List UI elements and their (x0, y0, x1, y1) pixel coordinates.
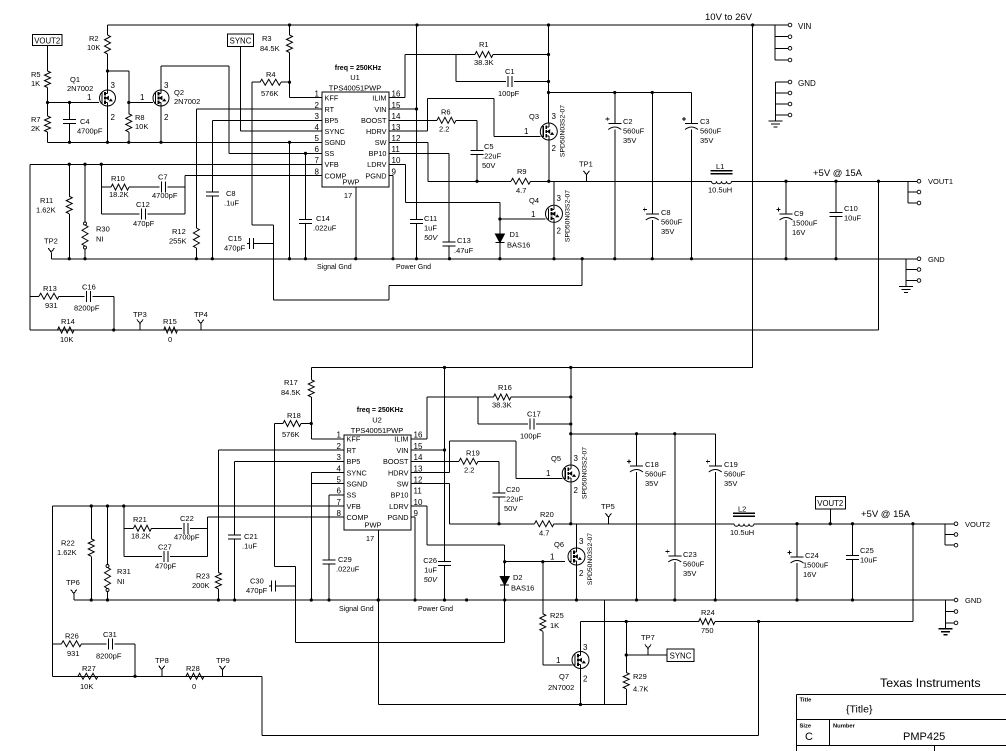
svg-text:COMP: COMP (347, 513, 369, 522)
svg-text:R8: R8 (135, 113, 145, 122)
resistor R23 200K (215, 573, 221, 589)
svg-text:Q6: Q6 (554, 540, 564, 549)
svg-text:2: 2 (111, 113, 116, 122)
svg-text:.1uF: .1uF (224, 199, 239, 208)
svg-text:35V: 35V (623, 136, 636, 145)
inductor L2 10.5uH (734, 524, 754, 527)
svg-text:TP8: TP8 (155, 656, 169, 665)
svg-text:1: 1 (546, 469, 551, 478)
test point TP2 (50, 252, 52, 259)
svg-text:1: 1 (524, 127, 529, 136)
svg-text:VOUT1: VOUT1 (928, 177, 953, 186)
svg-text:VFB: VFB (347, 502, 361, 511)
svg-text:LDRV: LDRV (367, 160, 386, 169)
capacitor C14 .022uF (299, 219, 312, 221)
wire Q7 source down (580, 669, 582, 705)
svg-text:R15: R15 (163, 317, 177, 326)
svg-text:R4: R4 (266, 70, 276, 79)
capacitor C18 560uF 35V (636, 434, 638, 466)
svg-text:14: 14 (414, 453, 423, 462)
wire LDRV2 routing (411, 505, 427, 507)
resistor R20 4.7 (535, 521, 555, 527)
svg-text:3: 3 (552, 112, 557, 121)
connector VOUT1 (907, 181, 909, 203)
wire lower ground rail (74, 599, 946, 601)
svg-text:R11: R11 (40, 196, 53, 205)
transistor Q5 SPD50N03S2-07 (562, 465, 579, 482)
capacitor C7 4700pF (129, 186, 160, 188)
svg-text:1: 1 (531, 210, 536, 219)
svg-text:C19: C19 (724, 460, 738, 469)
wire VOUT2 stem (47, 46, 49, 72)
svg-text:PGND: PGND (387, 513, 408, 522)
svg-text:84.5K: 84.5K (260, 44, 280, 53)
svg-text:C8: C8 (661, 208, 671, 217)
svg-text:+5V @ 15A: +5V @ 15A (861, 509, 911, 520)
svg-text:C8: C8 (226, 189, 236, 198)
svg-text:3: 3 (111, 81, 116, 90)
wire input cap bank top (549, 92, 692, 94)
svg-text:35V: 35V (683, 569, 696, 578)
transistor Q6 SPD50N03S2-07 (568, 548, 585, 565)
svg-text:Signal Gnd: Signal Gnd (339, 606, 374, 613)
svg-text:16: 16 (414, 431, 423, 440)
resistor R9 4.7 (511, 178, 531, 184)
wire VOUT2 sense line (53, 675, 263, 677)
capacitor C21 .1uF (228, 534, 241, 536)
svg-text:576K: 576K (282, 430, 300, 439)
svg-text:VIN: VIN (374, 105, 386, 114)
svg-text:35V: 35V (724, 479, 737, 488)
svg-text:10uF: 10uF (860, 556, 878, 565)
svg-text:2: 2 (337, 442, 342, 451)
svg-text:470pF: 470pF (155, 562, 177, 571)
svg-text:ILIM: ILIM (394, 435, 408, 444)
wire VIN2 pin15 (411, 449, 445, 451)
svg-text:1uF: 1uF (424, 224, 437, 233)
svg-text:1500uF: 1500uF (792, 219, 818, 228)
svg-text:SPD50N03S2-07: SPD50N03S2-07 (587, 533, 594, 585)
svg-text:C5: C5 (484, 142, 494, 151)
svg-text:D2: D2 (513, 573, 523, 582)
svg-text:10K: 10K (87, 43, 100, 52)
svg-text:SYNC: SYNC (670, 651, 692, 660)
wire SYNC2 pin4 to SGND2 (311, 472, 344, 474)
svg-text:R27: R27 (82, 664, 96, 673)
svg-text:PGND: PGND (365, 172, 386, 181)
svg-text:C18: C18 (645, 460, 659, 469)
svg-text:COMP: COMP (325, 172, 347, 181)
svg-text:200K: 200K (192, 581, 210, 590)
wire ILIM2 pin16 up (411, 438, 427, 440)
svg-text:U2: U2 (372, 416, 382, 425)
svg-text:C12: C12 (136, 200, 150, 209)
wire Q1 gate line (48, 102, 100, 104)
ground (output2 connector) (945, 623, 947, 629)
resistor R21 18.2K (124, 527, 134, 529)
wire Q4 gate line (500, 218, 546, 220)
connector J VIN pins (774, 25, 776, 60)
svg-text:Power Gnd: Power Gnd (396, 264, 431, 271)
svg-text:100pF: 100pF (520, 432, 542, 441)
svg-text:560uF: 560uF (645, 470, 667, 479)
wire VOUT1 sense drop (878, 181, 880, 330)
svg-text:TP4: TP4 (194, 310, 208, 319)
capacitor C10 10uF (835, 181, 837, 212)
resistor R25 1K (542, 562, 544, 614)
svg-text:BP5: BP5 (347, 457, 361, 466)
node VIN column junctions (547, 53, 550, 56)
wire VOUT2 sense drop (912, 524, 914, 622)
svg-text:VFB: VFB (325, 160, 339, 169)
svg-text:Number: Number (833, 724, 856, 730)
svg-text:11: 11 (414, 487, 423, 496)
svg-text:4700pF: 4700pF (174, 533, 200, 542)
svg-text:freq = 250KHz: freq = 250KHz (335, 65, 382, 72)
test point TP6 (73, 594, 75, 601)
svg-text:2.2: 2.2 (439, 125, 449, 134)
node R3/R4 junction (288, 81, 291, 84)
svg-text:R19: R19 (466, 449, 480, 458)
ground (output1 connector) (905, 281, 907, 287)
svg-text:R1: R1 (479, 40, 489, 49)
svg-text:C14: C14 (316, 214, 330, 223)
svg-text:BP10: BP10 (391, 491, 409, 500)
svg-text:576K: 576K (261, 89, 279, 98)
wire U2 pin17 PWP to gnd rail and Q7 source (377, 530, 379, 705)
svg-text:35V: 35V (661, 227, 674, 236)
wire SYNC line (626, 654, 667, 656)
svg-text:NI: NI (117, 577, 125, 586)
svg-text:R10: R10 (111, 174, 125, 183)
transistor Q7 2N7002 (572, 652, 589, 669)
wire Q6 drain/source (576, 524, 578, 548)
svg-text:VOUT2: VOUT2 (965, 520, 990, 529)
svg-text:560uF: 560uF (661, 218, 683, 227)
svg-text:560uF: 560uF (623, 127, 645, 136)
wire +5V rail 2 to VOUT2 (754, 523, 945, 525)
wire Q2 source down (160, 106, 162, 142)
svg-text:C29: C29 (338, 555, 352, 564)
svg-text:931: 931 (67, 649, 80, 658)
svg-text:560uF: 560uF (683, 560, 705, 569)
diode D1 BAS16 (499, 219, 501, 234)
svg-text:38.3K: 38.3K (492, 401, 512, 410)
svg-text:6: 6 (315, 145, 320, 154)
wire SS down with C14 (305, 153, 307, 219)
svg-text:KFF: KFF (325, 93, 339, 102)
svg-text:1.62K: 1.62K (57, 548, 77, 557)
svg-text:R13: R13 (43, 284, 57, 293)
svg-text:2: 2 (574, 486, 579, 495)
wire VIN2 drop with C26 (444, 368, 446, 562)
op-amp U1 TPS40051PWP box (322, 92, 389, 187)
title block frame (796, 693, 1006, 695)
svg-text:VIN: VIN (798, 22, 812, 31)
svg-text:.022uF: .022uF (336, 565, 360, 574)
wire compensation branch (100, 164, 102, 214)
wire SYNC pulldown branch (625, 620, 628, 623)
wire comp branch 2 right (207, 517, 209, 556)
capacitor C5 .22uF 50V (476, 120, 478, 150)
svg-text:LDRV: LDRV (389, 502, 408, 511)
wire LDRV routing (389, 163, 406, 165)
capacitor C11 1uF 50V (410, 219, 423, 221)
capacitor C8 560uF 35V (bulk) (651, 93, 653, 214)
wire SW pin12 (389, 141, 428, 143)
svg-text:C: C (805, 731, 813, 743)
svg-text:4.7K: 4.7K (633, 685, 648, 694)
wire Q1 source down (107, 106, 109, 142)
resistor R6 2.2 (389, 119, 437, 121)
svg-text:50V: 50V (504, 504, 517, 513)
svg-text:2N7002: 2N7002 (548, 683, 574, 692)
svg-text:RT: RT (347, 446, 357, 455)
resistor R7 2K (47, 103, 49, 117)
svg-text:C11: C11 (424, 214, 437, 223)
capacitor C1 100pF (455, 55, 457, 82)
wire SW2 node line (450, 523, 535, 525)
wire VIN2 column to Q5 (570, 368, 572, 466)
diode D2 BAS16 (504, 562, 506, 577)
capacitor C20 .22uF 50V (498, 461, 500, 492)
wire RT2 pin2 to R23 (218, 449, 344, 451)
svg-text:50V: 50V (424, 233, 438, 242)
svg-text:10: 10 (414, 498, 423, 507)
svg-text:C2: C2 (623, 117, 633, 126)
svg-text:3: 3 (574, 454, 579, 463)
svg-text:931: 931 (45, 301, 58, 310)
svg-text:RT: RT (325, 105, 335, 114)
resistor R31 NI (107, 506, 109, 565)
wire SW node line (428, 180, 511, 182)
wire R5 to node (47, 88, 49, 103)
capacitor C31 8200pF (82, 643, 107, 645)
svg-text:TP6: TP6 (66, 578, 80, 587)
connector GND (output1) (905, 259, 907, 281)
connector VOUT2 (944, 524, 946, 545)
resistor R11 1.62K (68, 164, 70, 196)
svg-text:C21: C21 (244, 532, 258, 541)
svg-text:1: 1 (87, 93, 92, 102)
svg-text:R28: R28 (186, 664, 200, 673)
ground (input connector) (775, 115, 777, 121)
svg-text:R29: R29 (633, 672, 647, 681)
svg-text:.1uF: .1uF (242, 542, 257, 551)
svg-text:12: 12 (392, 134, 401, 143)
resistor R5 1K (45, 71, 51, 88)
svg-text:C13: C13 (457, 236, 471, 245)
wire Q2 gate line (127, 101, 130, 104)
svg-text:Q5: Q5 (551, 454, 561, 463)
wire BP10 pin11 (389, 152, 449, 154)
svg-text:10.5uH: 10.5uH (708, 186, 732, 195)
svg-text:8200pF: 8200pF (96, 652, 122, 661)
svg-text:Q4: Q4 (529, 196, 539, 205)
svg-text:8200pF: 8200pF (74, 304, 100, 313)
wire COMP pin8 (185, 175, 322, 177)
svg-text:BOOST: BOOST (383, 457, 409, 466)
svg-text:HDRV: HDRV (366, 127, 387, 136)
wire VFB pin7 feedback line (30, 163, 322, 165)
wire compensation branch 2 (123, 506, 125, 556)
svg-text:R26: R26 (65, 632, 79, 641)
wire ILIM pin16 up (389, 97, 405, 99)
svg-text:SGND: SGND (325, 138, 346, 147)
svg-text:R25: R25 (550, 611, 564, 620)
connector J GND pins (input) (775, 82, 777, 115)
wire Q7 source rail (582, 704, 627, 706)
svg-text:8: 8 (337, 509, 342, 518)
svg-text:Texas Instruments: Texas Instruments (880, 676, 981, 690)
svg-text:255K: 255K (169, 237, 187, 246)
capacitor C23 560uF 35V (bulk) (674, 434, 676, 556)
resistor R24 750 (699, 619, 715, 625)
svg-text:560uF: 560uF (724, 470, 746, 479)
svg-text:TP2: TP2 (44, 237, 58, 246)
wire U1 pin17 PWP to gnd rail (355, 187, 357, 259)
svg-text:100pF: 100pF (498, 89, 520, 98)
svg-text:C7: C7 (158, 173, 168, 182)
svg-text:HDRV: HDRV (388, 468, 409, 477)
svg-text:R7: R7 (31, 115, 41, 124)
svg-text:SS: SS (347, 491, 357, 500)
svg-text:3: 3 (583, 643, 588, 652)
wire SW2 pin12 (411, 483, 450, 485)
svg-text:SPD50N03S2-07: SPD50N03S2-07 (560, 105, 567, 157)
resistor R14 10K (58, 327, 75, 333)
wire Q2 drain to SS (160, 66, 162, 90)
svg-text:13: 13 (414, 464, 423, 473)
svg-text:2N7002: 2N7002 (174, 97, 200, 106)
svg-text:4.7: 4.7 (516, 186, 526, 195)
capacitor C26 1uF 50V (438, 561, 451, 563)
svg-text:14: 14 (392, 112, 401, 121)
capacitor C22 4700pF (152, 527, 183, 529)
svg-text:SYNC: SYNC (325, 127, 345, 136)
capacitor C15 470pF (247, 242, 250, 244)
svg-text:R14: R14 (61, 317, 75, 326)
svg-text:0: 0 (192, 682, 196, 691)
svg-text:SPD50N03S2-07: SPD50N03S2-07 (565, 190, 572, 242)
wire input cap bank 2 top (571, 433, 716, 435)
wire +5V rail to VOUT1 (732, 180, 909, 182)
svg-text:R5: R5 (31, 70, 41, 79)
svg-text:Q1: Q1 (70, 75, 80, 84)
svg-text:C15: C15 (228, 234, 242, 243)
svg-text:TP9: TP9 (216, 656, 230, 665)
wire VFB2 pin7 feedback line (53, 505, 345, 507)
net label SYNC (bottom) (667, 649, 694, 662)
resistor R1 38.3K (405, 54, 475, 56)
resistor R19 2.2 (411, 460, 459, 462)
wire Q3 source to SW (548, 140, 550, 181)
transistor Q4 SPD50N03S2-07 (546, 205, 563, 222)
wire PGND2 pin9 (411, 516, 415, 518)
resistor R29 4.7K (625, 655, 627, 673)
svg-text:C26: C26 (423, 556, 437, 565)
capacitor C29 .022uF (323, 559, 336, 561)
svg-text:C9: C9 (794, 209, 804, 218)
svg-text:9: 9 (414, 509, 419, 518)
svg-text:{Title}: {Title} (846, 704, 873, 716)
wire Q6 gate line (505, 561, 565, 563)
wire RT pin2 to R12 (196, 108, 322, 110)
wire HDRV routing (389, 130, 428, 132)
wire KFF2 pin1 (310, 424, 312, 439)
svg-text:15: 15 (414, 442, 423, 451)
wire main ground rail (51, 258, 906, 260)
svg-text:GND: GND (928, 255, 945, 264)
wire divider top vertical (29, 164, 31, 330)
test point TP5 (608, 517, 610, 524)
transistor Q3 SPD50N03S2-07 (540, 123, 557, 140)
resistor R10 18.2K (101, 186, 111, 188)
wire SGND pin5 down to rail (288, 141, 291, 144)
svg-text:BP10: BP10 (369, 149, 387, 158)
svg-text:50V: 50V (482, 161, 495, 170)
svg-text:SPD50N03S2-07: SPD50N03S2-07 (582, 447, 589, 499)
svg-text:1K: 1K (31, 79, 40, 88)
svg-text:1500uF: 1500uF (803, 561, 829, 570)
svg-text:470pF: 470pF (246, 586, 268, 595)
wire Q5 source to SW2 (570, 482, 572, 524)
svg-text:KFF: KFF (347, 435, 361, 444)
svg-text:2: 2 (164, 113, 169, 122)
svg-text:.22uF: .22uF (482, 152, 502, 161)
wire BP5 pin3 to C8 (212, 119, 322, 121)
svg-text:50V: 50V (424, 575, 438, 584)
svg-text:SW: SW (375, 138, 387, 147)
resistor R16 38.3K (427, 396, 494, 398)
svg-text:GND: GND (965, 596, 982, 605)
svg-text:1uF: 1uF (424, 566, 437, 575)
svg-text:VOUT2: VOUT2 (817, 499, 843, 508)
capacitor C12 470pF (101, 213, 139, 215)
svg-text:SYNC: SYNC (347, 468, 367, 477)
svg-text:C17: C17 (527, 410, 541, 419)
svg-text:R31: R31 (117, 567, 131, 576)
svg-text:BAS16: BAS16 (511, 584, 534, 593)
node feedback junctions (68, 163, 71, 166)
test point TP1 (586, 175, 588, 182)
wire Q7 gate line (543, 664, 573, 666)
svg-text:R24: R24 (701, 608, 715, 617)
svg-text:R21: R21 (133, 515, 147, 524)
svg-text:C23: C23 (683, 550, 697, 559)
node SS/C14 junction (304, 152, 307, 155)
wire SS2 pin6 with C29 (329, 494, 344, 496)
wire HDRV2 routing (411, 472, 450, 474)
svg-text:10K: 10K (135, 122, 148, 131)
svg-text:TPS40051PWP: TPS40051PWP (329, 84, 382, 93)
svg-text:2K: 2K (31, 124, 40, 133)
wire C16 right down (113, 296, 115, 330)
svg-text:750: 750 (701, 626, 714, 635)
capacitor C13 .47uF (442, 241, 455, 243)
svg-text:C25: C25 (860, 546, 874, 555)
svg-text:VOUT2: VOUT2 (34, 36, 60, 45)
svg-text:BAS16: BAS16 (507, 241, 530, 250)
svg-text:Q7: Q7 (559, 672, 569, 681)
svg-text:10K: 10K (60, 335, 73, 344)
svg-text:C4: C4 (80, 117, 90, 126)
capacitor C27 470pF (124, 555, 162, 557)
svg-text:C10: C10 (844, 204, 858, 213)
svg-text:SYNC: SYNC (230, 36, 252, 45)
svg-text:18.2K: 18.2K (131, 532, 151, 541)
svg-text:R22: R22 (61, 539, 75, 548)
